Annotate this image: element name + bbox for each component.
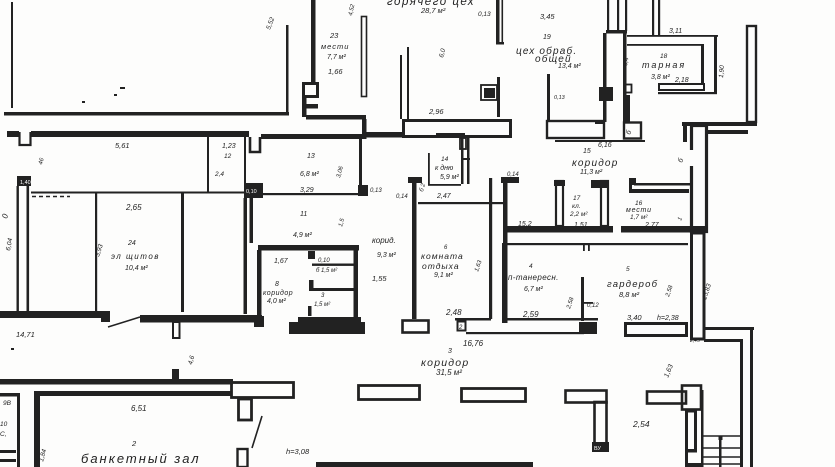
jamb dark box room 8: [254, 316, 264, 327]
wall room 14 right pair b: [467, 137, 470, 184]
cap: [496, 42, 504, 45]
wall partition room 23 / goryachiy: [362, 17, 367, 97]
footing box: [403, 321, 429, 333]
svg-text:17: 17: [573, 195, 581, 202]
stairwell wall inner: [740, 339, 743, 467]
cap band: [606, 30, 627, 34]
pilaster box corridor: [599, 87, 613, 101]
connector upper line: [704, 327, 754, 330]
long south corridor wall: [0, 379, 233, 385]
svg-text:3,45: 3,45: [540, 12, 555, 21]
wall room 13 right: [359, 139, 362, 185]
svg-text:3,8 м²: 3,8 м²: [651, 74, 670, 81]
door gap on wall: [688, 150, 694, 166]
banket column box: [238, 449, 248, 467]
small box 2: [458, 322, 466, 331]
room 16 bottom line: [629, 189, 689, 193]
svg-text:15,2: 15,2: [518, 221, 532, 228]
stub below slab: [460, 138, 466, 149]
svg-text:1,55: 1,55: [372, 274, 387, 283]
wall south corridor 15 east: [621, 226, 706, 233]
svg-text:2,2 м²: 2,2 м²: [569, 211, 588, 218]
svg-text:комната: комната: [421, 251, 464, 261]
stub above south wall: [172, 369, 179, 379]
jamb box 1,40 dark: [17, 176, 31, 186]
dashed line left: [32, 196, 70, 198]
wall room 14 right pair a: [461, 137, 464, 184]
tarnaya inner top line: [627, 44, 704, 46]
svg-text:23: 23: [329, 31, 339, 40]
wall left double a: [17, 186, 19, 312]
gamma block: [682, 386, 701, 410]
wall room 12 left: [207, 137, 209, 193]
svg-text:10,4 м²: 10,4 м²: [125, 265, 148, 272]
radiator line a: [0, 450, 16, 453]
tarnaya walls top verticals a: [652, 0, 654, 36]
svg-text:6,7 м²: 6,7 м²: [524, 286, 543, 293]
svg-text:2,96: 2,96: [428, 107, 444, 116]
svg-text:2,48: 2,48: [445, 308, 462, 317]
slab below room 8: [289, 322, 365, 334]
svg-text:2,59: 2,59: [522, 310, 539, 319]
tarnaya walls top verticals b: [658, 0, 660, 36]
svg-text:h=3,08: h=3,08: [286, 447, 310, 456]
svg-text:2,65: 2,65: [125, 203, 142, 212]
wall west of corridor 15: [503, 183, 508, 323]
svg-text:1,23: 1,23: [222, 143, 236, 150]
wall bottom band west: [0, 311, 104, 318]
room 4 bottom line: [502, 318, 598, 321]
step wall: [302, 104, 318, 109]
pilaster box room 23: [304, 84, 318, 97]
outer wall right top: [747, 26, 756, 122]
closet hook: [309, 280, 314, 291]
wall partition a: [95, 192, 97, 312]
svg-text:0,10: 0,10: [318, 258, 330, 264]
wall cap 0,14 east: [501, 177, 519, 183]
closet stub lower: [308, 306, 312, 316]
room 16 step: [629, 178, 636, 185]
wall band north of room 13: [261, 134, 366, 139]
svg-text:13: 13: [307, 153, 315, 160]
svg-text:2: 2: [458, 325, 463, 331]
svg-text:2,77: 2,77: [644, 222, 660, 229]
wall room 8 left: [257, 250, 262, 316]
svg-text:1,40: 1,40: [20, 180, 31, 186]
door swing diagonal: [108, 317, 140, 327]
svg-text:п-танересн.: п-танересн.: [508, 273, 559, 282]
svg-text:С,: С,: [0, 431, 7, 438]
corridor top line 16,76: [466, 332, 584, 334]
svg-text:11,3 м²: 11,3 м²: [580, 169, 603, 176]
wall left of slab east: [547, 74, 550, 121]
tick 0,12: [584, 302, 593, 304]
door tick a on top line: [583, 244, 585, 251]
corridor verticals top b: [617, 0, 619, 31]
main right wall lower: [692, 233, 705, 339]
wall left double b: [27, 186, 30, 312]
door stub below band: [173, 322, 180, 338]
wall below jamb left line: [244, 198, 248, 314]
svg-text:0,13: 0,13: [370, 188, 382, 194]
pillar rect 2: [462, 389, 526, 402]
svg-text:24: 24: [127, 240, 136, 247]
cap band bottom line: [705, 130, 748, 134]
tarnaya outer top line: [627, 35, 718, 37]
svg-text:2,45: 2,45: [689, 338, 700, 344]
svg-text:корид.: корид.: [372, 236, 396, 245]
gamma bar: [647, 392, 686, 404]
cap band top line: [682, 122, 757, 126]
svg-text:13,4 м²: 13,4 м²: [558, 63, 581, 70]
T pillar leg: [239, 399, 252, 420]
svg-text:отдыха: отдыха: [422, 261, 460, 271]
svg-text:мести: мести: [321, 42, 349, 51]
L pillar leg: [595, 402, 607, 446]
dark slab below divider: [579, 322, 597, 334]
svg-text:9В: 9В: [3, 400, 12, 407]
svg-text:1,66: 1,66: [328, 67, 343, 76]
svg-text:кл.: кл.: [572, 203, 581, 210]
wall corridor 9,3 east: [412, 183, 417, 319]
svg-text:0,14: 0,14: [396, 194, 408, 200]
dark box on wall: [481, 85, 497, 100]
svg-text:h=2,38: h=2,38: [657, 315, 679, 322]
svg-text:мести: мести: [626, 207, 652, 214]
wall right of top hall: [286, 25, 289, 115]
wall komnata otdyha right: [489, 178, 492, 319]
closet divider lower: [309, 288, 354, 291]
stair dot: [719, 436, 723, 440]
tarnaya inner right wall: [701, 45, 704, 85]
svg-text:5,9 м²: 5,9 м²: [440, 174, 459, 181]
wall below pilaster: [302, 98, 307, 117]
wall north of room 14: [366, 132, 405, 138]
wall top of room 2,65: [31, 192, 246, 194]
jamb dark box: [101, 311, 110, 322]
svg-text:9,3 м²: 9,3 м²: [377, 252, 396, 259]
door swing banket: [252, 416, 262, 448]
wall 5,61 band main: [31, 131, 249, 137]
svg-text:2,54: 2,54: [632, 419, 650, 429]
connector lower line: [704, 339, 741, 342]
wall top of room 8: [258, 245, 359, 251]
corridor verticals top a: [607, 0, 609, 31]
svg-text:1,51: 1,51: [574, 222, 588, 229]
svg-text:12: 12: [224, 153, 232, 160]
T pillar bar: [232, 383, 294, 398]
door tick room 14: [461, 158, 470, 160]
wall left of top hall: [11, 2, 13, 108]
svg-text:0,14: 0,14: [507, 172, 519, 178]
svg-text:0,12: 0,12: [587, 303, 599, 309]
wall goryachiy east top: [496, 0, 500, 44]
wall room 17 right box: [601, 181, 608, 226]
door recess right of room 12: [250, 137, 260, 152]
svg-text:коридор: коридор: [572, 158, 618, 169]
svg-text:7,7 м²: 7,7 м²: [327, 54, 346, 61]
svg-text:3: 3: [448, 348, 452, 355]
tarnaya inner bottom band: [659, 84, 704, 90]
L pillar bar: [566, 391, 607, 403]
stairwell wall outer: [750, 327, 753, 467]
ladder rung b: [685, 449, 697, 453]
svg-text:банкетный зал: банкетный зал: [81, 451, 201, 466]
main right wall upper: [692, 126, 707, 232]
wall thin dashes: [502, 0, 504, 44]
wall top of komnata otdyha: [418, 202, 505, 204]
svg-text:б 1,5 м²: б 1,5 м²: [316, 268, 338, 274]
svg-text:коридор: коридор: [263, 289, 293, 297]
slab 2,96: [404, 121, 511, 137]
wall partition b: [181, 192, 184, 312]
ladder rung a: [685, 409, 697, 413]
wall divider room 4-5: [581, 277, 584, 321]
step on wall: [683, 124, 687, 142]
ladder rail b: [694, 409, 697, 451]
svg-text:4,0 м²: 4,0 м²: [267, 298, 286, 305]
wall cap 0,14 west: [408, 177, 422, 183]
svg-text:6,8 м²: 6,8 м²: [300, 171, 319, 178]
svg-text:3,40: 3,40: [627, 313, 642, 322]
svg-text:1,67: 1,67: [274, 258, 289, 265]
svg-text:тарная: тарная: [642, 60, 686, 70]
svg-text:16: 16: [635, 200, 643, 207]
svg-text:1,5 м²: 1,5 м²: [314, 302, 331, 308]
wall bottom of top hall: [4, 112, 289, 116]
svg-text:1,7 м²: 1,7 м²: [630, 214, 648, 221]
svg-text:28,7 м²: 28,7 м²: [420, 6, 446, 15]
pillar rect 1: [359, 386, 420, 400]
wall pair goryachiy b: [407, 47, 409, 119]
left edge top line: [0, 393, 20, 397]
wall bottom band east: [140, 315, 262, 323]
closet step: [308, 251, 315, 259]
svg-text:9,1 м²: 9,1 м²: [434, 272, 453, 279]
svg-text:2,18: 2,18: [674, 77, 689, 84]
svg-text:8,8 м²: 8,8 м²: [619, 290, 640, 299]
connector line to slab: [595, 121, 605, 124]
closet divider upper: [312, 264, 354, 266]
banket hall top wall: [34, 391, 232, 396]
svg-text:2: 2: [131, 439, 137, 448]
wall band under 1,66: [306, 115, 366, 120]
svg-text:6,51: 6,51: [131, 404, 147, 413]
svg-text:гардероб: гардероб: [607, 279, 658, 290]
stair divider: [719, 436, 722, 467]
svg-text:0,10: 0,10: [246, 189, 257, 195]
jamb box 0,13: [358, 185, 368, 196]
wall pair goryachiy a: [400, 55, 402, 119]
svg-text:18: 18: [660, 53, 668, 60]
svg-text:14: 14: [441, 156, 449, 163]
wall closure right: [362, 119, 367, 139]
svg-text:11: 11: [300, 211, 307, 218]
ladder bottom bar: [685, 463, 702, 467]
slab east: [547, 121, 604, 138]
radiator line b: [0, 459, 16, 462]
svg-text:5: 5: [626, 266, 630, 273]
svg-text:5,61: 5,61: [115, 141, 130, 150]
svg-text:ВУ: ВУ: [594, 446, 601, 452]
svg-text:0,13: 0,13: [478, 11, 491, 18]
wall south corridor 15 west: [504, 226, 613, 233]
svg-text:16,76: 16,76: [463, 339, 484, 348]
svg-text:10: 10: [0, 421, 8, 428]
cap room 17 left: [554, 180, 565, 186]
corridor wall lower right wide: [623, 95, 630, 122]
svg-text:15: 15: [583, 148, 591, 155]
wall room 4 left: [502, 243, 506, 323]
door tick b on top line: [588, 244, 590, 251]
svg-text:14,71: 14,71: [16, 330, 35, 339]
wall bottom room 14: [428, 184, 461, 186]
svg-text:3,11: 3,11: [669, 28, 682, 35]
stair left wall: [701, 390, 704, 467]
wall room 12 right: [244, 137, 246, 193]
jamb box 0,10 dark: [244, 183, 263, 198]
line 6,16: [555, 140, 645, 142]
wall below jamb right line: [250, 198, 254, 243]
svg-text:2,4: 2,4: [214, 171, 224, 178]
wall bottom 2,48: [455, 318, 491, 321]
wall 5,61 band left piece: [7, 131, 19, 137]
room 4-5 top line: [502, 243, 688, 245]
wall goryachiy east lower: [497, 77, 500, 117]
notch U below band: [20, 132, 31, 145]
svg-text:8: 8: [275, 281, 279, 288]
svg-text:4: 4: [529, 263, 533, 270]
room 16 left vertical: [629, 178, 632, 193]
block with b mark: [624, 123, 641, 139]
tarnaya outer right wall: [714, 36, 717, 94]
svg-text:эл щитов: эл щитов: [111, 252, 160, 261]
svg-text:3,29: 3,29: [300, 187, 314, 194]
L pillar foot box: [592, 442, 609, 452]
corridor verticals top c: [625, 0, 627, 31]
svg-text:к дню: к дню: [435, 164, 454, 172]
svg-text:4,9 м²: 4,9 м²: [293, 232, 312, 239]
svg-text:31,5 м²: 31,5 м²: [436, 368, 462, 377]
room 16 top line: [634, 183, 690, 186]
wall line 3,29: [263, 193, 359, 195]
tarnaya outer bottom line: [658, 92, 717, 94]
garderob bottom wall: [626, 324, 687, 336]
slab upper layer: [298, 317, 361, 322]
svg-text:19: 19: [543, 34, 551, 41]
svg-text:0,13: 0,13: [554, 95, 566, 101]
jamb box on corridor wall: [625, 85, 632, 93]
left edge wall: [17, 396, 20, 467]
wall room 14 left: [428, 153, 430, 185]
cap room 17: [591, 180, 609, 188]
corridor wall pair left: [603, 33, 607, 122]
wall room 17 left box: [556, 181, 563, 226]
wall room 8 right: [354, 250, 359, 319]
corridor wall pair right: [623, 33, 627, 95]
ladder rail a: [685, 409, 688, 467]
speckle dots: [82, 101, 85, 103]
banket hall left wall: [34, 396, 40, 467]
svg-text:1,90: 1,90: [718, 65, 726, 79]
wall center-top pair: [311, 0, 316, 82]
svg-text:2,47: 2,47: [436, 193, 452, 200]
svg-text:6,16: 6,16: [598, 142, 612, 149]
stair treads: [703, 436, 740, 464]
bottom band: [316, 462, 533, 467]
